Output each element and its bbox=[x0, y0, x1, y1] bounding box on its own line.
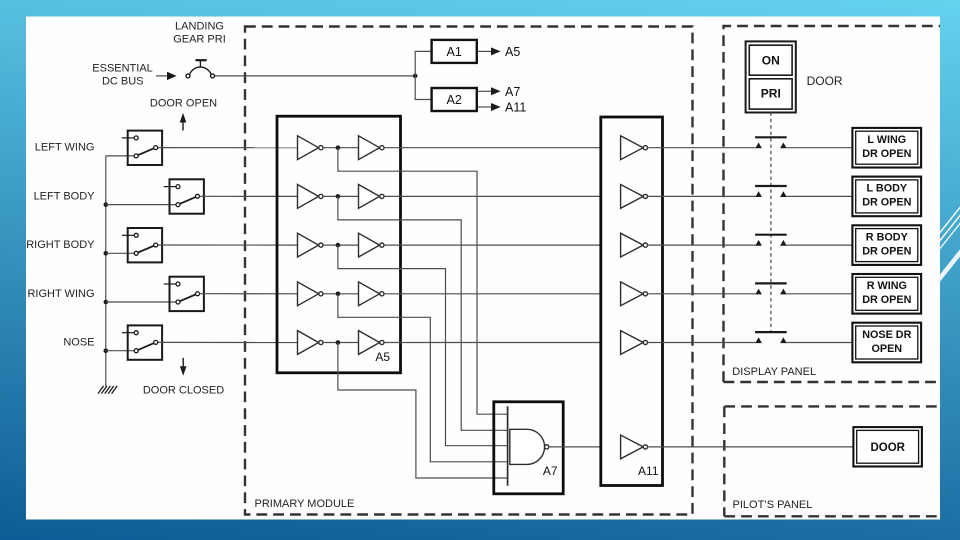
svg-text:A7: A7 bbox=[543, 464, 558, 478]
svg-text:DR OPEN: DR OPEN bbox=[862, 245, 911, 257]
wire ESSENTIAL DC BUS feed arrow bbox=[156, 75, 168, 77]
svg-text:LEFT BODY: LEFT BODY bbox=[34, 190, 96, 202]
wire A5 row 2 tap to A7 bbox=[338, 196, 508, 430]
svg-text:A5: A5 bbox=[375, 350, 390, 364]
wire A2 output to A11 bbox=[478, 106, 492, 108]
wire A5 row 3 output to A11 bbox=[384, 244, 600, 246]
svg-text:L WING: L WING bbox=[867, 134, 906, 146]
inverter A5 row 5 stage 1 bbox=[298, 331, 324, 355]
inverter A5 row 2 stage 2 bbox=[359, 185, 385, 209]
wire RIGHT WING switch output to A5 bbox=[200, 293, 298, 295]
wire NOSE switch output to A5 bbox=[158, 341, 298, 343]
node ground bus junction NOSE bbox=[104, 348, 109, 353]
svg-text:DISPLAY PANEL: DISPLAY PANEL bbox=[732, 366, 816, 378]
node ground bus junction LEFT BODY bbox=[104, 202, 109, 207]
node A5 row 5 tap bbox=[336, 340, 341, 345]
node A5 row 4 tap bbox=[336, 292, 341, 297]
inverter A5 row 3 stage 2 bbox=[359, 233, 385, 257]
svg-text:A7: A7 bbox=[505, 85, 520, 99]
contact display row 3 bbox=[755, 235, 787, 246]
svg-text:DOOR: DOOR bbox=[807, 74, 843, 88]
wire A11 row 3 output to contact bbox=[648, 244, 756, 246]
wire contact to indicator row 5 bbox=[787, 342, 853, 344]
inverter A5 row 1 stage 2 bbox=[359, 136, 385, 160]
wire ground bus bbox=[105, 156, 107, 387]
svg-text:DR OPEN: DR OPEN bbox=[862, 148, 911, 160]
wire LEFT WING switch input bbox=[106, 155, 134, 157]
wire A5 row 3 interstage bbox=[323, 244, 359, 246]
buffer A11 row 5 bbox=[621, 331, 648, 355]
wire A5 row 4 interstage bbox=[323, 293, 359, 295]
switch DOOR display ON/PRI bbox=[746, 41, 796, 112]
svg-text:A11: A11 bbox=[638, 464, 659, 478]
svg-text:DOOR OPEN: DOOR OPEN bbox=[150, 97, 217, 109]
contact display row 1 bbox=[755, 137, 787, 148]
svg-text:DR OPEN: DR OPEN bbox=[862, 294, 911, 306]
switch RIGHT BODY bbox=[122, 228, 162, 262]
wire A5 row 1 interstage bbox=[323, 147, 359, 149]
wire A5 row 5 interstage bbox=[323, 342, 359, 344]
svg-text:ON: ON bbox=[762, 54, 780, 68]
wire A7 input bar bbox=[507, 406, 509, 486]
svg-text:RIGHT BODY: RIGHT BODY bbox=[26, 239, 95, 251]
contact display row 2 bbox=[755, 186, 787, 197]
buffer A11 row 3 bbox=[621, 233, 648, 257]
arrow door open bbox=[182, 121, 184, 131]
wire A11 row 4 output to contact bbox=[648, 293, 756, 295]
buffer A11 row 4 bbox=[621, 282, 648, 306]
wire branch to A2 bbox=[415, 76, 431, 100]
svg-text:L BODY: L BODY bbox=[867, 183, 908, 195]
svg-text:GEAR PRI: GEAR PRI bbox=[173, 34, 226, 46]
wire A7 output to A11 bbox=[549, 446, 600, 448]
svg-text:NOSE DR: NOSE DR bbox=[862, 329, 911, 341]
svg-text:LANDING: LANDING bbox=[175, 21, 224, 33]
wire contact to indicator row 4 bbox=[787, 293, 853, 295]
svg-text:DR OPEN: DR OPEN bbox=[862, 197, 911, 209]
inverter A5 row 4 stage 2 bbox=[359, 282, 385, 306]
svg-text:A5: A5 bbox=[505, 45, 520, 59]
inverter A5 row 2 stage 1 bbox=[298, 185, 324, 209]
wire A1 output to A5 bbox=[478, 50, 492, 52]
svg-text:A1: A1 bbox=[447, 45, 462, 59]
svg-text:R BODY: R BODY bbox=[866, 231, 909, 243]
box A2 bbox=[432, 88, 477, 111]
buffer A11 row 1 bbox=[621, 136, 648, 160]
svg-text:A2: A2 bbox=[447, 93, 462, 107]
svg-text:R WING: R WING bbox=[867, 280, 907, 292]
panel boundary DISPLAY PANEL bbox=[724, 26, 941, 382]
contact display row 4 bbox=[755, 283, 787, 294]
buffer A11 DOOR row bbox=[621, 435, 648, 459]
and-gate A7 bbox=[510, 429, 549, 464]
wire breaker to distribution junction bbox=[215, 75, 416, 77]
svg-text:NOSE: NOSE bbox=[63, 337, 94, 349]
indicator NOSE DR OPEN bbox=[852, 323, 921, 363]
wire A5 row 1 output to A11 bbox=[384, 147, 600, 149]
switch LEFT BODY bbox=[164, 179, 204, 213]
node power junction bbox=[413, 74, 418, 79]
wire RIGHT BODY switch input bbox=[106, 252, 134, 254]
wire A5 row 1 tap to A7 bbox=[338, 148, 508, 415]
node ground bus junction RIGHT WING bbox=[104, 300, 109, 305]
indicator R BODY DR OPEN bbox=[852, 225, 921, 265]
wire A5 row 5 tap to A7 bbox=[338, 343, 508, 479]
svg-text:OPEN: OPEN bbox=[871, 343, 902, 355]
wire A5 row 4 output to A11 bbox=[384, 293, 600, 295]
inverter A5 row 3 stage 1 bbox=[298, 233, 324, 257]
svg-text:LEFT WING: LEFT WING bbox=[35, 142, 95, 154]
wire branch to A1 bbox=[415, 51, 431, 76]
node A5 row 3 tap bbox=[336, 243, 341, 248]
svg-text:PILOT’S PANEL: PILOT’S PANEL bbox=[733, 499, 813, 511]
wire NOSE switch input bbox=[106, 350, 134, 352]
module A11 bbox=[601, 117, 663, 486]
svg-text:ESSENTIAL: ESSENTIAL bbox=[92, 62, 153, 74]
wire A5 row 2 output to A11 bbox=[384, 195, 600, 197]
wire PRI control dashed bbox=[770, 113, 772, 333]
contact display row 5 bbox=[755, 332, 787, 343]
wire A11 row 2 output to contact bbox=[648, 195, 756, 197]
wire RIGHT BODY switch output to A5 bbox=[158, 244, 298, 246]
indicator L WING DR OPEN bbox=[852, 128, 921, 168]
box A1 bbox=[432, 40, 477, 63]
switch NOSE bbox=[122, 325, 162, 359]
ground bbox=[98, 386, 117, 394]
svg-text:RIGHT WING: RIGHT WING bbox=[27, 288, 94, 300]
circuit breaker LANDING GEAR PRI bbox=[186, 60, 215, 78]
wire LEFT BODY switch output to A5 bbox=[200, 195, 298, 197]
module A5 bbox=[277, 116, 401, 373]
module A7 bbox=[494, 402, 563, 494]
indicator L BODY DR OPEN bbox=[852, 177, 921, 217]
wire contact to indicator row 3 bbox=[787, 244, 853, 246]
svg-text:PRIMARY MODULE: PRIMARY MODULE bbox=[255, 498, 355, 510]
module boundary PRIMARY MODULE bbox=[245, 27, 693, 515]
wire A11 row 1 output to contact bbox=[648, 147, 756, 149]
node A5 row 2 tap bbox=[336, 194, 341, 199]
inverter A5 row 1 stage 1 bbox=[298, 136, 324, 160]
inverter A5 row 4 stage 1 bbox=[298, 282, 324, 306]
wire LEFT BODY switch input bbox=[106, 204, 176, 206]
switch LEFT WING bbox=[122, 131, 162, 165]
indicator DOOR (pilot) bbox=[853, 427, 922, 466]
panel boundary PILOT'S PANEL bbox=[724, 406, 940, 516]
wire A5 row 2 interstage bbox=[323, 195, 359, 197]
svg-text:DOOR: DOOR bbox=[870, 442, 905, 454]
arrow door closed bbox=[182, 358, 184, 367]
svg-text:PRI: PRI bbox=[761, 86, 781, 100]
node A5 row 1 tap bbox=[336, 145, 341, 150]
svg-text:A11: A11 bbox=[505, 101, 526, 115]
inverter A5 row 5 stage 2 bbox=[359, 331, 385, 355]
wire contact to indicator row 1 bbox=[787, 147, 853, 149]
svg-text:DOOR CLOSED: DOOR CLOSED bbox=[143, 385, 224, 397]
wire A11 row 5 output to contact bbox=[648, 342, 756, 344]
svg-text:DC BUS: DC BUS bbox=[102, 76, 144, 88]
buffer A11 row 2 bbox=[621, 185, 648, 209]
wire RIGHT WING switch input bbox=[106, 301, 176, 303]
switch RIGHT WING bbox=[164, 277, 204, 311]
wire A5 row 3 tap to A7 bbox=[338, 245, 508, 446]
wire LEFT WING switch output to A5 bbox=[158, 147, 298, 149]
node ground bus junction RIGHT BODY bbox=[104, 251, 109, 256]
wire contact to indicator row 2 bbox=[787, 195, 853, 197]
indicator R WING DR OPEN bbox=[852, 274, 921, 314]
wire A11 DOOR output to pilot indicator bbox=[648, 446, 854, 448]
wire A5 row 5 output to A11 bbox=[384, 342, 600, 344]
wire A2 output to A7 bbox=[478, 90, 492, 92]
wire A5 row 4 tap to A7 bbox=[338, 294, 508, 462]
